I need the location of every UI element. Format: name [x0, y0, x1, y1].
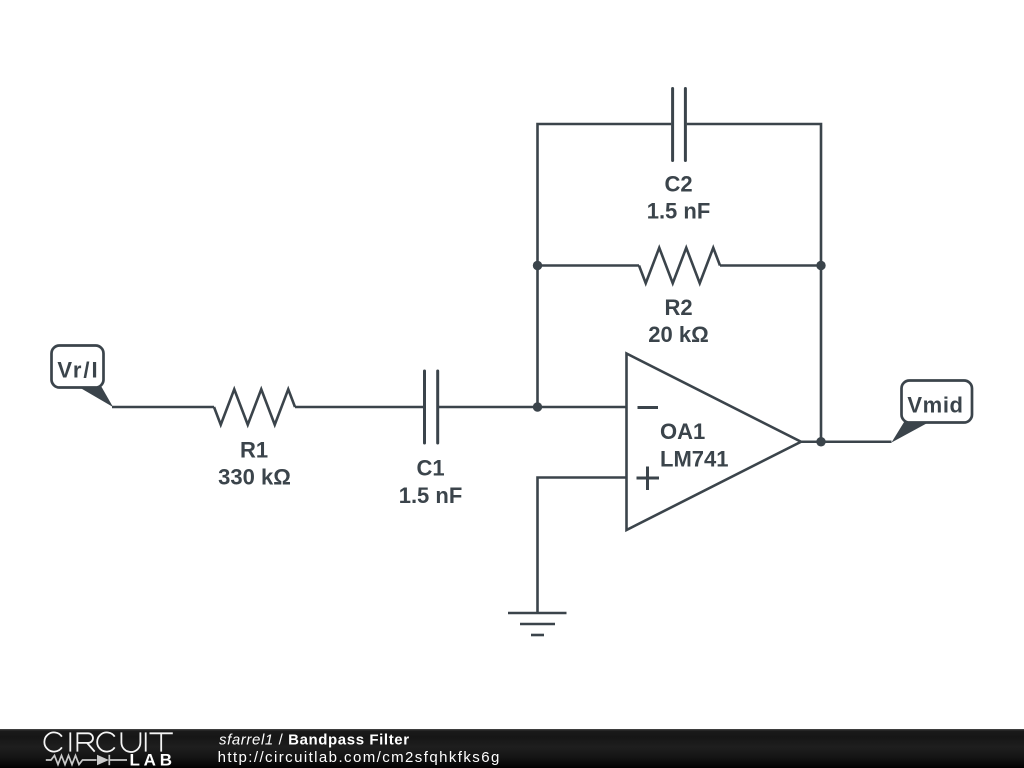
logo letter T	[150, 733, 173, 751]
logo letter I	[69, 732, 71, 751]
svg-text:Vmid: Vmid	[907, 393, 963, 418]
capacitor C1	[425, 371, 438, 443]
net flag Vmid (output node)	[892, 381, 973, 443]
resistor R1	[214, 389, 295, 425]
op-amp OA1 non-inverting input (+) mark	[637, 467, 660, 491]
capacitor C2	[673, 89, 686, 161]
net flag Vr/I (input node)	[52, 346, 114, 408]
logo letter I	[145, 732, 147, 751]
junction node R2/C2 left	[533, 261, 542, 270]
logo letter C	[44, 732, 62, 751]
wire C2 to right vertical + right feedback vertical	[687, 124, 821, 442]
svg-text:1.5 nF: 1.5 nF	[399, 483, 463, 508]
svg-text:R1: R1	[240, 438, 268, 463]
svg-text:20 kΩ: 20 kΩ	[648, 322, 708, 347]
logo doodle wire + resistor + diode	[46, 755, 127, 765]
svg-text:C1: C1	[416, 456, 444, 481]
junction node R2/C2 right	[816, 261, 825, 270]
svg-text:LM741: LM741	[660, 447, 728, 472]
svg-text:Vr/I: Vr/I	[57, 358, 99, 383]
logo letter C	[97, 732, 115, 751]
wire op-amp plus lead	[538, 478, 627, 614]
wire R1 to C1	[295, 406, 424, 409]
wire node A to op-amp minus	[538, 406, 627, 409]
op-amp OA1 triangle body	[627, 354, 802, 531]
ground symbol	[508, 613, 567, 635]
resistor R2	[639, 248, 720, 284]
junction node output	[816, 437, 825, 446]
svg-text:330 kΩ: 330 kΩ	[218, 465, 291, 490]
svg-text:1.5 nF: 1.5 nF	[647, 199, 711, 224]
wire Vr/I to R1	[112, 406, 214, 409]
wire left to R2	[538, 264, 640, 267]
svg-text:OA1: OA1	[660, 419, 705, 444]
logo letter U	[121, 732, 140, 752]
svg-text:sfarrel1 / Bandpass Filter: sfarrel1 / Bandpass Filter	[219, 731, 410, 748]
svg-text:http://circuitlab.com/cm2sfqhk: http://circuitlab.com/cm2sfqhkfks6g	[218, 749, 501, 766]
svg-text:LAB: LAB	[130, 750, 176, 768]
logo CIRCUIT wordmark	[44, 732, 172, 752]
svg-text:C2: C2	[664, 172, 692, 197]
svg-text:R2: R2	[664, 295, 692, 320]
wire output	[801, 440, 892, 443]
op-amp OA1 inverting input (-) mark	[638, 406, 659, 409]
footer bar	[0, 729, 1024, 768]
wire R2 to right	[720, 264, 821, 267]
wire left feedback vertical + top to C2	[538, 124, 672, 407]
logo letter R	[77, 733, 94, 751]
junction node A (input to op-amp)	[533, 402, 542, 411]
wire C1 to node A	[439, 406, 538, 409]
